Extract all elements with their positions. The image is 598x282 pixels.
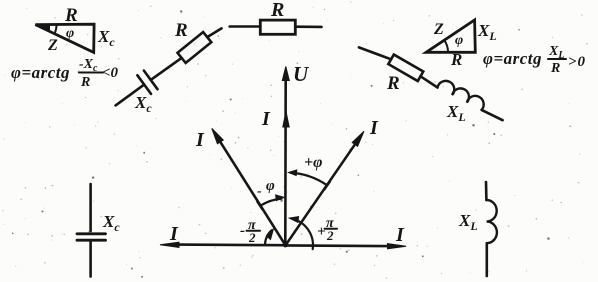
svg-text:U: U [293, 62, 310, 86]
svg-text:R: R [270, 0, 284, 21]
svg-text:R: R [64, 5, 78, 26]
svg-text:R: R [550, 61, 560, 76]
svg-text:Z: Z [433, 21, 444, 38]
svg-text:R: R [174, 20, 188, 41]
svg-text:φ: φ [66, 26, 74, 41]
arc +pi/2 (right quadrant) [289, 217, 313, 250]
label +pi/2 fraction [317, 216, 334, 243]
svg-text:R: R [386, 73, 400, 94]
svg-text:φ: φ [455, 33, 463, 48]
impedance triangle (capacitive) Z,R,Xc [35, 23, 94, 52]
capacitor Xc (series, on diagonal branch) [137, 71, 157, 94]
resistor R (RL branch, diagonal) [388, 55, 423, 82]
svg-text:I: I [195, 129, 205, 151]
vector I (horizontal left, leading pi/2) [160, 242, 286, 247]
wire (RL branch, lower lead) [482, 110, 503, 120]
svg-text:>0: >0 [568, 54, 586, 70]
formula phi=arctg XL/R &gt; 0 [483, 44, 586, 76]
wire (left lead of horizontal resistor) [230, 25, 261, 28]
arc -pi/2 (left quadrant, small) [265, 229, 274, 245]
svg-text:2: 2 [326, 228, 334, 243]
resistor R (horizontal) [260, 20, 295, 34]
vector I (up-left, capacitive branch current) [212, 128, 286, 245]
label -pi/2 fraction [240, 218, 256, 245]
svg-text:-: - [257, 184, 262, 199]
fraction bar (+pi/2) [325, 228, 338, 230]
svg-text:2: 2 [248, 230, 256, 245]
arc -phi (between up-left vector and U axis) [257, 195, 284, 209]
vector I (horizontal right, lagging pi/2) [286, 244, 407, 249]
svg-text:-: - [240, 223, 245, 239]
wire (RC branch, upper lead) [207, 28, 221, 37]
arc +phi (between U axis and up-right vector) [289, 170, 331, 190]
svg-text:+: + [317, 224, 326, 240]
svg-text:R: R [450, 50, 462, 69]
svg-text:φ=arctg: φ=arctg [483, 49, 542, 68]
svg-text:φ=arctg: φ=arctg [11, 63, 70, 82]
resistor R (RC branch, diagonal) [177, 32, 211, 63]
svg-text:Z: Z [47, 37, 58, 54]
impedance triangle (inductive) Z,XL,R [426, 20, 475, 52]
label -phi [257, 178, 275, 199]
svg-text:φ: φ [266, 178, 275, 194]
svg-text:I: I [369, 117, 379, 139]
wire (RL branch, middle) [421, 76, 438, 87]
wire (RC branch, lower lead) [116, 85, 145, 106]
fraction bar (right formula) [548, 58, 566, 60]
svg-text:I: I [261, 108, 271, 130]
wire (RC branch, middle) [151, 58, 182, 80]
svg-text:I: I [395, 224, 405, 246]
capacitor Xc (vertical, bottom left) [77, 184, 106, 277]
vector I (up-right, inductive branch current) [286, 131, 365, 245]
fraction bar (-pi/2) [247, 230, 261, 232]
inductor XL (coil on RL branch) [438, 81, 484, 110]
svg-text:I: I [169, 223, 179, 245]
svg-text:R: R [80, 75, 90, 90]
formula phi=arctg -Xc/R &lt; 0 [11, 57, 119, 90]
inductor XL (vertical, bottom right) [486, 182, 497, 276]
axis U (voltage phasor, vertical) [282, 67, 289, 248]
wire (right lead of horizontal resistor) [295, 25, 321, 28]
fraction bar (left formula) [79, 72, 103, 74]
svg-text:+φ: +φ [304, 154, 322, 171]
wire (RL branch, upper lead) [359, 47, 391, 59]
svg-text:<0: <0 [102, 65, 119, 81]
arrow I (current phasor along U axis) [283, 112, 289, 128]
